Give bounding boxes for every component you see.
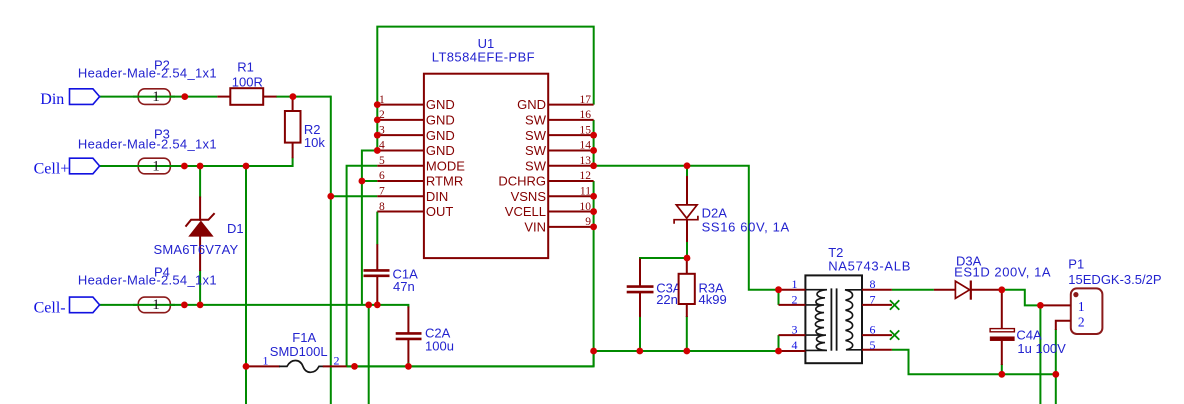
wire D1 bottom stub xyxy=(199,270,201,305)
junction SW node at D2A xyxy=(684,162,691,169)
ic U1 pin 10 line xyxy=(548,211,593,213)
resistor R3A top pin xyxy=(686,258,688,275)
svg-text:4k99: 4k99 xyxy=(699,292,727,307)
junction Cell+/D1 xyxy=(197,163,204,170)
wire Din vertical bus down left of U1 xyxy=(330,96,332,404)
junction U1 pin4 xyxy=(374,147,381,154)
port Cell+ xyxy=(70,158,100,174)
connector P4 wire through xyxy=(133,304,175,306)
svg-text:1: 1 xyxy=(1078,299,1085,314)
junction bus left node xyxy=(590,348,597,355)
junction D2A/C3A/R3A node xyxy=(684,255,691,262)
transformer T2 pin 5 line xyxy=(862,349,892,351)
resistor R3A body xyxy=(679,274,695,304)
connector P2 wire through xyxy=(133,96,175,98)
svg-text:VIN: VIN xyxy=(524,219,546,234)
wire C4A bottom stub xyxy=(1001,364,1003,374)
capacitor C3A plates xyxy=(627,285,654,288)
capacitor C4A top pin xyxy=(1001,290,1003,329)
svg-text:SW: SW xyxy=(525,143,547,158)
fuse F1A riser to bus xyxy=(593,351,595,366)
svg-text:22n: 22n xyxy=(656,292,678,307)
capacitor C4A bottom pin xyxy=(1001,341,1003,365)
schottky D2A cathode bar xyxy=(674,216,698,224)
svg-text:11: 11 xyxy=(580,185,591,197)
svg-text:100u: 100u xyxy=(425,339,454,354)
ic U1 pin 8 line xyxy=(377,211,424,213)
ic U1 pin 16 line xyxy=(548,119,593,121)
capacitor C1A plates xyxy=(364,269,390,272)
svg-text:SW: SW xyxy=(525,128,547,143)
svg-text:SS16 60V, 1A: SS16 60V, 1A xyxy=(702,220,790,235)
wire Din port to R1 xyxy=(100,96,218,98)
ic U1 pin 7 line xyxy=(377,195,424,197)
wire SW pins 16-13 chain xyxy=(593,120,595,166)
resistor R1 left pin xyxy=(217,96,231,98)
diode D3A cathode bar xyxy=(970,281,972,300)
resistor R1 right pin xyxy=(263,96,277,98)
wire T2 pin8 to D3A xyxy=(892,289,934,291)
wire SW pin13 to transformer riser xyxy=(594,166,779,290)
svg-text:Header-Male-2.54_1x1: Header-Male-2.54_1x1 xyxy=(78,137,217,152)
junction U1 pin2 xyxy=(374,116,381,123)
junction Cell- at P4 pin xyxy=(181,302,188,309)
connector P4 box xyxy=(138,297,170,313)
capacitor C3A top pin xyxy=(639,259,641,287)
wire P1 pin2 down off sheet xyxy=(1055,329,1057,404)
svg-text:1u 100V: 1u 100V xyxy=(1017,341,1066,356)
junction C2A bottom node xyxy=(405,363,412,370)
fuse F1A right pin xyxy=(323,365,347,367)
wire D2A top stub xyxy=(686,166,688,177)
junction U1 pin9 VIN xyxy=(590,223,597,230)
junction U1 pin15 xyxy=(590,132,597,139)
junction P1 pin1 node xyxy=(1037,302,1044,309)
junction Cell- branch down xyxy=(365,302,372,309)
svg-text:SMD100L: SMD100L xyxy=(270,344,328,359)
junction U1 pin1 xyxy=(374,101,381,108)
fuse F1A left pin xyxy=(247,365,280,367)
transformer T2 secondary winding xyxy=(845,290,861,350)
port Din xyxy=(70,89,100,105)
svg-text:OUT: OUT xyxy=(426,204,454,219)
junction U1 pin6 RTMR xyxy=(359,178,366,185)
junction T2 pin1 xyxy=(775,286,782,293)
svg-text:14: 14 xyxy=(580,140,592,152)
ic U1 pin 9 line xyxy=(548,226,593,228)
transformer T2 pin 3 line xyxy=(779,334,806,336)
wire T2 pin3-pin4 tie xyxy=(778,335,780,351)
junction D3A/C4A node xyxy=(998,286,1005,293)
wire D1 top stub xyxy=(199,165,201,198)
wire D3A to P1 pin1 jog xyxy=(1002,290,1041,306)
transformer T2 pin 8 line xyxy=(862,289,892,291)
resistor R1 body xyxy=(230,88,263,105)
wire D2A bottom stub xyxy=(686,241,688,258)
svg-text:4: 4 xyxy=(792,338,798,352)
zener D1 cathode bar xyxy=(186,213,215,226)
svg-text:6: 6 xyxy=(379,170,385,182)
svg-text:MODE: MODE xyxy=(426,158,465,173)
ic U1 pin 4 line xyxy=(377,149,424,151)
ic U1 pin 15 line xyxy=(548,134,593,136)
wire Cell- port to C2A corner xyxy=(100,305,409,308)
capacitor C2A bottom stub green xyxy=(407,363,409,367)
wire MODE pin5 elbow down to fuse row xyxy=(347,166,378,367)
junction Cell-/D1 xyxy=(197,302,204,309)
fuse F1A fuse-row wire xyxy=(347,365,594,367)
ic U1 pin 11 line xyxy=(548,195,593,197)
svg-text:2: 2 xyxy=(334,353,340,367)
junction Cell+ at P3 pin xyxy=(181,163,188,170)
ic U1 pin 2 line xyxy=(377,119,424,121)
junction C4A bottom xyxy=(998,371,1005,378)
svg-text:5: 5 xyxy=(379,155,385,167)
junction U1 pin11 xyxy=(590,193,597,200)
connector P2 box xyxy=(138,89,170,105)
svg-text:1: 1 xyxy=(152,158,160,174)
svg-text:2: 2 xyxy=(792,292,798,306)
capacitor C4A negative plate xyxy=(990,337,1014,341)
capacitor C4A positive plate xyxy=(990,329,1014,332)
svg-text:15EDGK-3.5/2P: 15EDGK-3.5/2P xyxy=(1068,272,1161,287)
svg-text:SW: SW xyxy=(525,112,547,127)
svg-text:RTMR: RTMR xyxy=(426,174,463,189)
capacitor C1A bottom pin xyxy=(376,277,378,305)
wire bottom bus to transformer xyxy=(594,350,779,352)
transformer T2 pin 7 line xyxy=(862,304,892,306)
svg-text:7: 7 xyxy=(379,185,385,197)
wire R3A bottom stub xyxy=(686,316,688,351)
zener D1 bottom pin xyxy=(199,236,201,271)
svg-text:7: 7 xyxy=(870,292,876,306)
transformer T2 core xyxy=(830,288,832,350)
no-connect X on T2 pin 7 xyxy=(890,300,899,309)
svg-text:15: 15 xyxy=(580,124,592,136)
ic U1 pin 12 line xyxy=(548,180,593,182)
svg-text:12: 12 xyxy=(580,170,592,182)
svg-text:VCELL: VCELL xyxy=(505,204,546,219)
svg-text:1: 1 xyxy=(792,277,798,291)
wire node down from Cell- row to bottom xyxy=(368,305,370,404)
diode D3A right pin xyxy=(971,289,1002,291)
transformer T2 primary winding xyxy=(806,290,827,351)
connector P1 polarity dot xyxy=(1073,292,1078,297)
ic U1 pin 6 line xyxy=(377,180,424,182)
wire GND loop pins 1-4 chain and over-the-top to pin 17 xyxy=(377,27,593,151)
junction bus R3A xyxy=(683,348,690,355)
svg-text:Header-Male-2.54_1x1: Header-Male-2.54_1x1 xyxy=(78,65,217,80)
wire GND pin4 elbow xyxy=(362,150,377,304)
svg-text:DIN: DIN xyxy=(426,189,448,204)
svg-text:8: 8 xyxy=(379,201,385,213)
junction Cell-/C1A xyxy=(374,302,381,309)
wire RTMR pin6 stub xyxy=(362,180,377,182)
wire DCHRG pin12 chain down to fuse row corner xyxy=(347,181,594,366)
capacitor C2A top pin xyxy=(407,307,409,334)
junction Cell+ branch xyxy=(243,163,250,170)
diode D3A left pin xyxy=(934,289,956,291)
svg-text:5: 5 xyxy=(870,338,876,352)
svg-text:D1: D1 xyxy=(227,221,244,236)
wire T2 pin5 to bottom-right rail xyxy=(892,350,1056,375)
svg-text:GND: GND xyxy=(426,143,455,158)
transformer T2 pin 4 line xyxy=(779,350,806,352)
capacitor C2A plates xyxy=(396,332,422,335)
svg-text:F1A: F1A xyxy=(292,330,316,345)
ic U1 pin 3 line xyxy=(377,134,424,136)
svg-text:R1: R1 xyxy=(237,60,254,75)
wire pin7 DIN row xyxy=(331,195,378,197)
svg-text:GND: GND xyxy=(426,112,455,127)
transformer T2 pin 1 line xyxy=(779,289,806,291)
svg-text:Cell+: Cell+ xyxy=(34,160,70,177)
resistor R3A bottom pin xyxy=(686,304,688,318)
svg-text:47n: 47n xyxy=(393,279,415,294)
wire C3A bottom stub xyxy=(639,316,641,351)
port Cell- xyxy=(70,297,100,313)
diode D3A triangle xyxy=(955,281,969,298)
resistor R2 bottom pin xyxy=(292,142,294,159)
junction T2 pin4 xyxy=(775,348,782,355)
svg-text:ES1D 200V, 1A: ES1D 200V, 1A xyxy=(954,265,1051,280)
resistor R2 body xyxy=(285,111,301,143)
transformer T2 pin 2 line xyxy=(779,304,806,306)
zener D1 triangle xyxy=(190,222,212,236)
svg-text:Din: Din xyxy=(40,91,64,108)
svg-text:16: 16 xyxy=(580,109,592,121)
svg-text:DCHRG: DCHRG xyxy=(498,174,546,189)
transformer T2 pin 6 line xyxy=(862,334,892,336)
junction U1 pin3 xyxy=(374,132,381,139)
resistor R2 top pin xyxy=(292,97,294,112)
svg-text:GND: GND xyxy=(426,97,455,112)
svg-text:10k: 10k xyxy=(304,135,325,150)
junction U1 pin14 xyxy=(590,147,597,154)
wire T2 pin1-pin2 tie xyxy=(778,290,780,305)
svg-text:17: 17 xyxy=(580,94,592,106)
ic U1 pin 14 line xyxy=(548,149,593,151)
connector P1 pin 1 line xyxy=(1040,304,1070,306)
capacitor C3A bottom pin xyxy=(639,293,641,317)
transformer T2 body xyxy=(805,275,862,363)
ic U1 pin 13 line xyxy=(548,165,593,167)
junction U1 pin7 DIN xyxy=(327,193,334,200)
svg-text:NA5743-ALB: NA5743-ALB xyxy=(828,258,911,273)
svg-text:SW: SW xyxy=(525,158,547,173)
svg-text:13: 13 xyxy=(580,155,592,167)
svg-text:1: 1 xyxy=(263,353,269,367)
svg-text:100R: 100R xyxy=(232,75,263,90)
junction Din/R1/R2 node xyxy=(290,93,297,100)
svg-text:SMA6T6V7AY: SMA6T6V7AY xyxy=(154,242,239,257)
svg-text:D2A: D2A xyxy=(702,206,728,221)
wire R1 right to corner xyxy=(276,96,331,98)
junction bus C3A xyxy=(636,348,643,355)
fuse F1A element xyxy=(279,360,324,372)
svg-text:2: 2 xyxy=(1078,314,1085,329)
svg-text:3: 3 xyxy=(792,323,798,337)
junction fuse pin1 node xyxy=(243,363,250,370)
connector P3 wire through xyxy=(133,165,175,167)
svg-text:1: 1 xyxy=(152,297,160,313)
wire OUT pin8 down to C1A xyxy=(376,212,378,245)
capacitor C1A top pin xyxy=(376,244,378,270)
svg-text:GND: GND xyxy=(426,128,455,143)
ic U1 body xyxy=(424,74,548,258)
junction fuse pin2 node xyxy=(351,363,358,370)
junction P1 pin2 bottom node xyxy=(1052,371,1059,378)
no-connect X on T2 pin 6 xyxy=(890,330,899,339)
junction Din at P2 pin xyxy=(181,93,188,100)
svg-text:GND: GND xyxy=(517,97,546,112)
svg-text:LT8584EFE-PBF: LT8584EFE-PBF xyxy=(432,49,535,64)
svg-text:1: 1 xyxy=(152,89,160,105)
svg-text:6: 6 xyxy=(870,323,876,337)
ic U1 pin 1 line xyxy=(377,104,424,106)
svg-text:P1: P1 xyxy=(1068,256,1084,271)
connector P3 box xyxy=(138,158,170,174)
wire P1 pin1 net down off sheet xyxy=(1039,305,1041,404)
capacitor C2A bottom pin xyxy=(407,340,409,364)
schottky D2A top pin xyxy=(686,176,688,205)
svg-text:8: 8 xyxy=(870,277,876,291)
svg-text:VSNS: VSNS xyxy=(511,189,547,204)
ic U1 pin 17 line xyxy=(548,104,593,106)
junction U1 pin10 xyxy=(590,208,597,215)
zener D1 top pin xyxy=(199,197,201,221)
wire C3A top link xyxy=(640,258,687,260)
wire R2 bottom stub xyxy=(292,157,294,167)
svg-text:Cell-: Cell- xyxy=(34,299,66,316)
connector P1 pin 2 line xyxy=(1056,321,1071,330)
ic U1 pin 5 line xyxy=(377,165,424,167)
svg-text:10: 10 xyxy=(580,201,592,213)
wire Cell+ port to R2 bottom xyxy=(100,165,293,167)
wire Cell+ branch down to fuse xyxy=(245,165,247,404)
schottky D2A triangle xyxy=(676,205,697,218)
svg-text:Header-Male-2.54_1x1: Header-Male-2.54_1x1 xyxy=(78,273,217,288)
connector P1 body xyxy=(1071,288,1103,334)
schottky D2A bottom pin xyxy=(686,220,688,242)
junction U1 pin13 SW xyxy=(590,162,597,169)
